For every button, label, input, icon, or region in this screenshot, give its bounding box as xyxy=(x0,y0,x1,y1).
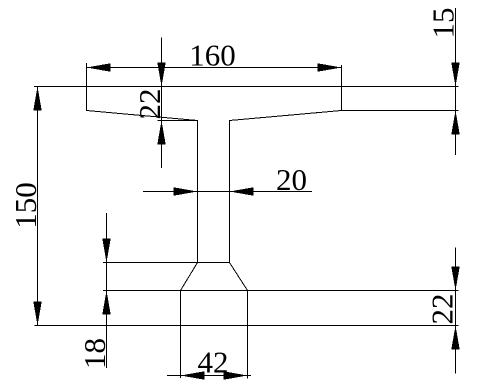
extension line: flange underside at web (y=120) xyxy=(158,120,198,122)
extension line: flange top level (y=86), full width xyxy=(34,86,458,88)
dimension 42: dim line xyxy=(167,375,251,377)
dimension 20: left arrow (points right) xyxy=(174,187,198,195)
svg-text:18: 18 xyxy=(77,338,112,369)
dimension 150: dim line xyxy=(37,87,39,326)
dimension 42: left arrow (points left) xyxy=(181,371,205,379)
svg-text:20: 20 xyxy=(276,162,307,197)
dimension 15: lower arrow (points up) xyxy=(451,111,459,135)
dimension 22 right: dim line xyxy=(455,248,457,374)
dimension 22 top: dim line xyxy=(161,38,163,169)
extension line: web bottom / flare start (y=262) xyxy=(103,262,230,264)
svg-text:22: 22 xyxy=(132,89,167,120)
dimension 22 right: upper arrow (points down) xyxy=(451,267,459,291)
dimension 42: left extension below bottom xyxy=(180,326,182,379)
svg-text:150: 150 xyxy=(8,182,43,229)
dimension 22 top: upper arrow (points down) xyxy=(157,63,165,87)
dimension 160: left extension above flange xyxy=(86,63,88,87)
svg-text:22: 22 xyxy=(425,294,460,325)
dimension 18: lower arrow (points up) xyxy=(102,291,110,315)
dimension 42: right extension below bottom xyxy=(247,326,249,379)
dimension 15: upper arrow (points down) xyxy=(451,63,459,87)
dimension 15: dim line xyxy=(455,8,457,155)
extension line: beam bottom level (y=325), full width xyxy=(35,325,459,327)
dimension 150: bottom arrow (points down) xyxy=(33,302,41,326)
dimension 150: top arrow (points up) xyxy=(33,87,41,111)
dimension 160: left arrow xyxy=(87,63,111,71)
dimension 18: upper arrow (points down) xyxy=(102,239,110,263)
svg-text:15: 15 xyxy=(426,8,461,39)
dimension 42: right arrow (points right) xyxy=(224,371,248,379)
dimension 18: dim line xyxy=(106,213,108,368)
dimension 160: right arrow xyxy=(318,63,342,71)
dimension 20: right arrow (points left) xyxy=(230,187,254,195)
svg-text:42: 42 xyxy=(198,345,229,380)
svg-text:160: 160 xyxy=(189,38,236,73)
dimension 20: dim line xyxy=(143,191,312,193)
T-beam cross-section outline xyxy=(87,87,342,326)
extension line: right flange underside level (y=110) xyxy=(339,110,459,112)
dimension 160: right extension above flange xyxy=(341,65,343,87)
extension line: bulb shoulder (y=290), full width xyxy=(103,290,459,292)
dimension 22 top: lower arrow (points up) xyxy=(157,121,165,145)
dimension 22 right: lower arrow (points up) xyxy=(451,326,459,350)
dimension 160: dim line xyxy=(87,67,342,69)
